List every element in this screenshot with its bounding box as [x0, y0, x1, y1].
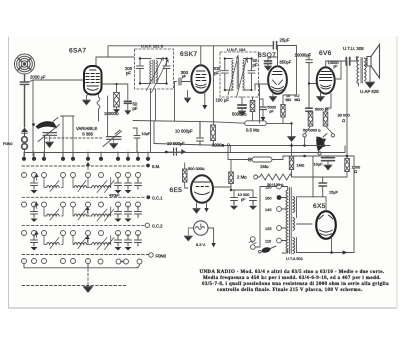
tube 6E5 magic eye [191, 175, 213, 203]
svg-text:120: 120 [265, 185, 272, 190]
switch contacts row3 [22, 231, 141, 236]
page border right [396, 37, 398, 308]
svg-text:0.5 MΩ: 0.5 MΩ [246, 128, 260, 133]
svg-text:6SQ7: 6SQ7 [258, 52, 276, 59]
svg-text:pF: pF [182, 74, 186, 78]
svg-text:10000pF: 10000pF [295, 53, 312, 58]
IF transformer U.N.F. 101 box [135, 49, 174, 89]
ground chassis left [84, 287, 93, 293]
IF1 secondary coil [156, 61, 157, 83]
wire bus y152 [24, 146, 345, 153]
resistor 30-130 ohm fieldcoil [254, 174, 347, 180]
antenna coil L1 [15, 54, 35, 74]
inductor tuning arrows row 2 [50, 209, 114, 221]
svg-text:0.M.: 0.M. [152, 164, 160, 169]
svg-text:10μF: 10μF [142, 132, 151, 136]
wire 6SK7 cathode [175, 78, 208, 121]
svg-text:2000 pF: 2000 pF [30, 75, 46, 80]
svg-text:pF: pF [214, 71, 219, 76]
ground speaker [366, 66, 375, 88]
tube 6V6 [317, 67, 335, 93]
node junction dots row [22, 152, 140, 161]
svg-text:0.C.2: 0.C.2 [152, 224, 163, 229]
IF2 capacitor left [221, 57, 232, 91]
ground pilot lamp [184, 228, 193, 241]
svg-text:pF: pF [253, 63, 258, 68]
wire row4 link [98, 259, 142, 264]
svg-text:6.3 V.: 6.3 V. [196, 242, 206, 247]
tube 6V6 internals [320, 72, 333, 90]
page border left [8, 37, 10, 308]
AC mains terminals [249, 237, 256, 250]
svg-text:Ω: Ω [342, 118, 345, 123]
svg-text:500 000Ω: 500 000Ω [188, 166, 205, 171]
output transformer U.T.U. 308 [357, 57, 366, 84]
svg-text:F0N0: F0N0 [3, 141, 13, 146]
switch contacts row2 [22, 202, 141, 207]
node pot terminals [303, 134, 335, 137]
tube 6SQ7 [268, 66, 287, 94]
resistor 1500 ohm [345, 156, 350, 177]
svg-text:F0N0: F0N0 [156, 254, 167, 259]
capacitor 2000pF [20, 75, 29, 128]
wire bottom bus [24, 264, 140, 268]
IF2 primary coil [232, 60, 233, 90]
resistor 500000 pot body left [306, 111, 313, 133]
switch contacts row1 [22, 173, 141, 178]
terminal O.C.1 [146, 195, 150, 199]
svg-text:50000Ω: 50000Ω [232, 112, 247, 117]
wire bus y146 [154, 137, 330, 147]
svg-text:pF: pF [126, 71, 131, 76]
switch wafer O.C.2 dashed [22, 224, 144, 226]
wire 6E5 right lead [204, 187, 231, 212]
svg-text:25μF: 25μF [280, 38, 290, 43]
svg-text:μF: μF [241, 198, 246, 202]
resistor 50000 ohm in box [250, 97, 255, 121]
tube 6X5 internals [319, 215, 333, 235]
wire screen grid bus [317, 93, 332, 108]
resistor tone pot body right [323, 108, 332, 133]
capacitor 50pF [124, 101, 131, 114]
tube 6SK7 internals [196, 71, 207, 88]
inductor tuning arrows row 3 [50, 238, 114, 250]
capacitor 10000pF pair left [231, 198, 238, 210]
capacitor 5000pF plate [346, 58, 349, 66]
wire 6SA7 plate to rail [96, 46, 134, 66]
svg-text:10 000pF: 10 000pF [175, 129, 193, 134]
capacitor 5000uF cathode 6V6 [306, 108, 312, 111]
svg-text:pF: pF [334, 65, 338, 69]
wire oscillator section [33, 80, 74, 156]
svg-text:110: 110 [265, 239, 272, 244]
wire 6SK7 plate [200, 46, 202, 65]
svg-text:30 000: 30 000 [338, 113, 351, 118]
tube 6E5 internals [194, 182, 210, 195]
terminal O.C.2 [145, 223, 149, 227]
wire 6SA7 plate right [97, 83, 128, 121]
terminal O.M. [146, 164, 150, 168]
capacitor 5000 pF [260, 107, 267, 110]
svg-text:U.N.F. 101 S: U.N.F. 101 S [141, 43, 163, 48]
IF2 capacitor right [244, 57, 256, 91]
switch wafer O.C.1 dashed [22, 196, 145, 198]
IF1 tuning capacitor right [156, 57, 170, 84]
resistor 1 M ohm vertical [288, 123, 296, 177]
svg-text:10 000pF: 10 000pF [167, 141, 185, 146]
ground 6SA7 cathode [83, 94, 91, 106]
capacitor 15uF [319, 177, 327, 191]
switch contacts row4 [22, 259, 91, 264]
svg-text:5000 μF: 5000 μF [315, 107, 330, 112]
wire IF1 to grid [151, 89, 156, 153]
AC plug [259, 246, 277, 254]
ground dashed chassis line [22, 264, 127, 286]
capacitor 25uF [273, 42, 276, 50]
speaker U.AP 628 [365, 45, 380, 79]
page border bottom [9, 307, 398, 309]
svg-text:6E5: 6E5 [170, 187, 183, 194]
IF2 secondary coil [243, 60, 244, 90]
svg-text:16μF: 16μF [314, 162, 324, 167]
svg-text:MΩ: MΩ [286, 98, 292, 102]
svg-text:430pF: 430pF [109, 193, 120, 198]
svg-text:UNDA RADIO - Mod. 63/4 e altri: UNDA RADIO - Mod. 63/4 e altri da 63/5 s… [200, 270, 385, 275]
terminal FONO [149, 253, 153, 257]
wire bus y157 [228, 146, 354, 253]
resistor 500000 ohm 6E5 [183, 163, 189, 188]
node extra dots [146, 152, 150, 161]
capacitor 10000pF pair right [250, 198, 257, 210]
capacitor 100uF cathode [238, 97, 246, 116]
IF1 primary coil [150, 61, 151, 83]
svg-text:140: 140 [265, 207, 272, 212]
resistor 2 M ohm [229, 160, 253, 198]
svg-text:6V6: 6V6 [319, 50, 332, 57]
capacitor 16uF electrolytic [322, 156, 335, 170]
capacitor trimmers row 3 [31, 235, 142, 251]
tube 6SQ7 internals [272, 72, 284, 92]
svg-text:pF: pF [270, 110, 274, 114]
svg-text:U.T.A 501: U.T.A 501 [286, 256, 303, 261]
svg-text:160: 160 [265, 196, 272, 201]
capacitor trimmers row 1 [31, 178, 142, 194]
IF transformer U.N.F. 104 box [220, 52, 259, 97]
gang dashed link [45, 137, 103, 139]
IF1 tuning capacitor left [137, 57, 152, 84]
svg-text:6SA7: 6SA7 [69, 47, 86, 54]
svg-text:U.T.U. 308: U.T.U. 308 [343, 46, 364, 51]
wire 6V6 plate to OT [326, 57, 359, 86]
wire B+ top rail [108, 46, 297, 96]
svg-text:6SK7: 6SK7 [180, 51, 197, 58]
phono jack terminals [22, 137, 28, 156]
svg-text:125: 125 [265, 226, 272, 231]
wire AVC bus y121 [133, 121, 293, 144]
capacitor 10uF trimmer [133, 128, 140, 153]
resistor 3000 ohm [211, 125, 216, 145]
tube 6SA7 [84, 66, 102, 95]
svg-text:0.C.1: 0.C.1 [152, 195, 163, 200]
inductor tuning arrows row 1 [50, 181, 114, 193]
power transformer core [289, 188, 291, 254]
svg-text:U.N.F. 104: U.N.F. 104 [227, 47, 246, 52]
variable capacitor gang 1 [32, 118, 59, 148]
svg-text:S 385: S 385 [82, 132, 94, 137]
svg-text:650pF: 650pF [280, 60, 292, 65]
wire right column verticals [313, 61, 347, 197]
resistor plate load 6SQ7 [281, 95, 285, 123]
capacitor trimmers row 2 [31, 206, 142, 222]
svg-text:MΩ: MΩ [295, 98, 301, 102]
resistor 10000 ohm [114, 93, 120, 114]
power transformer HT secondary [293, 197, 295, 254]
ground 6E5 left [193, 202, 200, 213]
switch wiper arrows [34, 162, 90, 242]
wire primary top [282, 187, 288, 254]
resistor 1 M ohm horizontal [248, 157, 272, 162]
tube 6SK7 [191, 65, 210, 93]
power transformer U.T.A 501 primary [286, 190, 288, 252]
capacitor 10000uF AVC [197, 122, 204, 145]
svg-text:50 0000 Ω: 50 0000 Ω [303, 128, 321, 133]
svg-text:Ω: Ω [227, 143, 230, 147]
svg-text:controllo della finale. Finale: controllo della finale. Finale 215 V pla… [217, 288, 363, 293]
svg-text:pF: pF [133, 106, 138, 111]
inductor group row 3 [44, 236, 111, 245]
svg-text:100 μF: 100 μF [216, 98, 230, 103]
svg-text:2 MΩ: 2 MΩ [237, 175, 247, 180]
node grid junction [29, 80, 83, 82]
capacitor coupling on bus with arrow [165, 148, 185, 155]
svg-text:VARIABILE: VARIABILE [76, 126, 98, 131]
power transformer taps labels [265, 185, 272, 244]
wire variable cap 2 [107, 96, 109, 137]
svg-text:6X5: 6X5 [313, 203, 326, 210]
capacitor 650 pF top [265, 46, 278, 71]
wire HT to 6X5 [297, 197, 355, 255]
inductor group row 2 [44, 207, 111, 216]
potentiometer wiper arm [316, 134, 327, 155]
svg-text:1MΩ: 1MΩ [260, 164, 269, 169]
wire pilot lamp right [208, 228, 216, 248]
svg-text:1MΩ: 1MΩ [297, 163, 305, 168]
node AVC junction [222, 143, 231, 152]
variable capacitor gang 2 [103, 130, 122, 149]
phono input arrow [21, 128, 27, 136]
IF1 core [147, 58, 169, 93]
wire taps to switch [256, 187, 277, 248]
svg-text:15μF: 15μF [329, 190, 339, 195]
capacitor 10000pF coupling [306, 54, 317, 109]
svg-text:10000Ω: 10000Ω [104, 111, 119, 116]
resistor 0.5 M ohm [245, 121, 267, 126]
svg-text:Media frequenza a 450 kc per i: Media frequenza a 450 kc per i modd. 63/… [203, 276, 381, 281]
wire 6SQ7 down [213, 46, 276, 125]
power transformer tap terminals [277, 184, 287, 243]
svg-text:10 000: 10 000 [238, 192, 251, 197]
tube 6X5 rectifier [316, 211, 336, 239]
switch wafer FONO dashed [22, 254, 149, 256]
pilot lamp [194, 221, 208, 235]
svg-text:U.AP 628: U.AP 628 [360, 89, 379, 94]
IF2 core [228, 56, 248, 98]
ground 6SK7 cathode [184, 98, 190, 103]
inductor group row 1 [44, 178, 111, 188]
svg-text:63/5-7-8, i quali possiedono u: 63/5-7-8, i quali possiedono una resiste… [202, 282, 389, 287]
tube 6SA7 internals [86, 70, 100, 90]
wire variable cap 1 [44, 135, 46, 158]
switch wafer O.M. dashed [22, 165, 145, 167]
